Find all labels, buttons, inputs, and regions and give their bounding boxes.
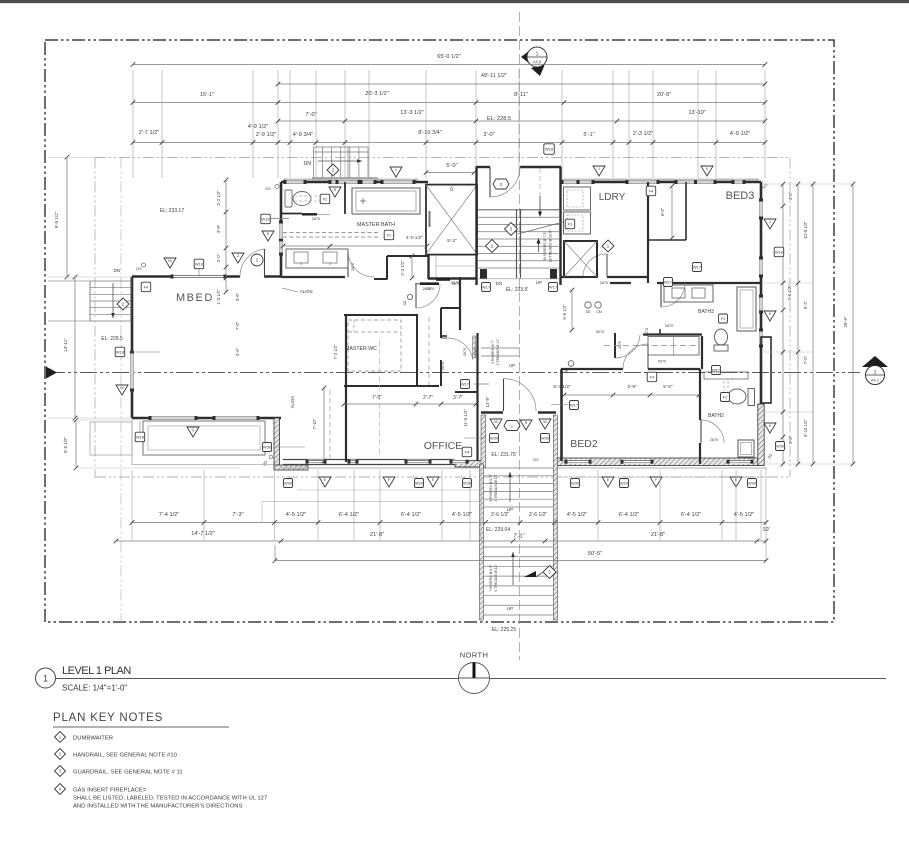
- bottom dim row3: [275, 560, 766, 562]
- svg-text:E: E: [607, 478, 610, 482]
- svg-text:6 TREADS Ø 11": 6 TREADS Ø 11": [494, 564, 498, 592]
- window N2: [330, 180, 350, 184]
- svg-text:3'-0": 3'-0": [483, 132, 494, 138]
- svg-text:F4: F4: [649, 189, 654, 194]
- svg-text:E: E: [324, 478, 327, 482]
- top toolbar strip: [0, 0, 909, 3]
- key notes underline: [53, 726, 229, 728]
- tri tag R: [329, 187, 341, 197]
- top stair arrow: [318, 160, 362, 162]
- entry W30 R: [541, 434, 550, 443]
- vertical centerline: [519, 12, 521, 660]
- window N6: [676, 180, 715, 184]
- LDRY east wall: [647, 182, 649, 283]
- master bath west wall: [280, 182, 283, 277]
- north diameter: [459, 677, 490, 679]
- svg-text:7'-5": 7'-5": [372, 395, 382, 401]
- left stair dia 2: [117, 298, 129, 310]
- svg-text:9'-9 1/2": 9'-9 1/2": [54, 211, 59, 228]
- svg-text:W18: W18: [116, 350, 125, 355]
- svg-text:29'-9": 29'-9": [843, 316, 848, 327]
- svg-text:W18: W18: [545, 147, 554, 152]
- stairwell east wall: [559, 167, 561, 285]
- north wall east: [561, 181, 761, 184]
- tri W MBED top: [164, 258, 176, 268]
- shower X: [426, 185, 477, 254]
- window N7: [733, 180, 744, 184]
- SD circle BED2: [568, 361, 574, 367]
- corridor dashed line: [428, 317, 430, 385]
- svg-text:ALIGN: ALIGN: [300, 289, 313, 294]
- svg-text:4'-0 1/2": 4'-0 1/2": [406, 235, 423, 240]
- MB tub: [352, 188, 420, 214]
- svg-text:4'-5 1/2": 4'-5 1/2": [452, 512, 472, 518]
- svg-text:7'-3": 7'-3": [232, 512, 243, 518]
- svg-text:W: W: [120, 386, 124, 390]
- note 1 diamond: [55, 732, 66, 743]
- W17 tag BED3: [693, 263, 702, 272]
- svg-text:F2: F2: [723, 395, 728, 400]
- MB toilet: [285, 190, 292, 207]
- shower box: [426, 185, 477, 255]
- north circle: [459, 663, 490, 694]
- svg-text:7'-0": 7'-0": [235, 321, 240, 330]
- svg-text:3'-6": 3'-6": [473, 347, 478, 356]
- svg-text:5'-5 1/2": 5'-5 1/2": [562, 304, 567, 320]
- entry hatch west: [481, 415, 486, 468]
- corridor east wall lower: [440, 360, 442, 386]
- flight1 up arrow: [509, 472, 511, 502]
- svg-text:2670: 2670: [312, 217, 320, 221]
- svg-text:W: W: [543, 420, 547, 424]
- svg-text:GAS INSERT FIREPLACE=: GAS INSERT FIREPLACE=: [73, 788, 147, 794]
- W18 porch tag: [135, 432, 145, 442]
- bottom dim row1: [132, 522, 766, 524]
- svg-text:6'-10 1/2": 6'-10 1/2": [803, 419, 808, 437]
- svg-text:UP: UP: [509, 363, 515, 368]
- W17 tag BATH3: [664, 278, 673, 287]
- svg-text:2670: 2670: [451, 281, 459, 285]
- svg-text:6'-4 1/2": 6'-4 1/2": [681, 512, 701, 518]
- vestibule door arc: [490, 167, 520, 197]
- stair dia 3: [505, 223, 518, 236]
- extension lines top: [132, 70, 134, 178]
- svg-text:GUARDRAIL. SEE GENERAL NOTE #: GUARDRAIL. SEE GENERAL NOTE # 11: [73, 770, 183, 776]
- office top wall: [344, 385, 439, 387]
- svg-text:R: R: [334, 188, 337, 192]
- svg-text:3'-7": 3'-7": [453, 395, 463, 401]
- svg-text:2670: 2670: [423, 287, 431, 291]
- svg-text:5'-1": 5'-1": [583, 132, 594, 138]
- svg-text:BED3: BED3: [726, 190, 755, 202]
- svg-text:SD: SD: [403, 300, 407, 305]
- left ext lines: [48, 157, 95, 159]
- note 4 diamond: [55, 784, 66, 795]
- svg-text:2'-6 1/2": 2'-6 1/2": [787, 285, 792, 301]
- svg-text:BATH3: BATH3: [698, 309, 714, 315]
- right ext lines: [763, 183, 853, 185]
- svg-text:W30: W30: [263, 445, 272, 450]
- sheet border dash-dot: [45, 40, 834, 622]
- svg-text:2'-9 1/2": 2'-9 1/2": [256, 132, 276, 138]
- svg-text:BED2: BED2: [570, 438, 598, 450]
- right dim col4: [852, 184, 854, 464]
- svg-text:13'-3 1/2": 13'-3 1/2": [400, 110, 424, 116]
- entry W30 L: [490, 434, 499, 443]
- svg-text:2670: 2670: [618, 341, 622, 349]
- svg-text:W18: W18: [195, 262, 204, 267]
- svg-text:7 RISERS Ø 6.5": 7 RISERS Ø 6.5": [489, 564, 493, 592]
- svg-text:J: J: [598, 167, 600, 171]
- office east wall: [455, 391, 477, 393]
- svg-text:DS: DS: [265, 187, 271, 191]
- stair dia 2: [486, 240, 499, 253]
- svg-text:J: J: [769, 220, 771, 224]
- window MBW: [279, 222, 283, 254]
- svg-text:LEVEL 1 PLAN: LEVEL 1 PLAN: [62, 665, 131, 677]
- svg-text:4'-5 1/2": 4'-5 1/2": [734, 512, 754, 518]
- svg-text:65'-0 1/2": 65'-0 1/2": [437, 54, 461, 60]
- left dim col1: [66, 157, 68, 277]
- stair center rail: [516, 209, 518, 278]
- svg-text:5070: 5070: [658, 360, 666, 364]
- BED2 top wall: [561, 368, 623, 370]
- svg-text:4'-8": 4'-8": [788, 435, 793, 444]
- section marker 1-A4.0: [521, 47, 547, 76]
- office center dashed: [379, 340, 381, 455]
- svg-text:DN: DN: [304, 161, 312, 167]
- svg-text:OFFICE: OFFICE: [424, 440, 463, 452]
- BED3 door: [660, 283, 662, 307]
- closet box: [648, 337, 699, 356]
- bottom dim row2: [116, 540, 766, 542]
- F2 tag BATH2: [721, 393, 730, 402]
- dim row5: [133, 142, 765, 144]
- svg-text:13'-10": 13'-10": [688, 110, 705, 116]
- svg-text:W30: W30: [748, 481, 757, 486]
- svg-text:7'-0": 7'-0": [803, 355, 808, 364]
- svg-text:W18: W18: [261, 217, 270, 222]
- svg-text:EL: 231.75': EL: 231.75': [491, 452, 516, 458]
- niche wall n: [387, 255, 428, 257]
- dim 5-0 entry: [426, 172, 474, 174]
- svg-text:6'-0": 6'-0": [660, 207, 665, 216]
- vestibule hex 3: [493, 179, 509, 189]
- tri J right: [764, 219, 776, 229]
- svg-text:W17: W17: [549, 285, 558, 290]
- W17 stair R: [549, 283, 558, 292]
- svg-text:1: 1: [874, 370, 877, 376]
- svg-text:5'-3 1/2": 5'-3 1/2": [553, 384, 571, 390]
- svg-text:1: 1: [43, 674, 48, 684]
- svg-text:21'-8": 21'-8": [370, 532, 384, 538]
- tri E MB: [262, 231, 274, 241]
- BATH2 vanity: [704, 372, 748, 379]
- svg-text:F2: F2: [721, 316, 726, 321]
- top stair treads: [313, 147, 315, 178]
- wall below shower h: [428, 277, 476, 279]
- svg-text:5070: 5070: [441, 362, 445, 370]
- svg-text:3'-6 1/2": 3'-6 1/2": [491, 512, 510, 518]
- svg-text:DUMBWAITER: DUMBWAITER: [73, 736, 113, 742]
- svg-text:EL: 233.5': EL: 233.5': [506, 287, 528, 293]
- stair up arrow: [538, 240, 540, 252]
- svg-text:7'-1": 7'-1": [513, 534, 524, 540]
- svg-text:2670: 2670: [710, 438, 718, 442]
- marker row tris: [319, 477, 331, 487]
- south wall west hatch B: [455, 461, 484, 468]
- MBED door arc: [240, 249, 265, 277]
- svg-text:3'-9": 3'-9": [627, 384, 637, 390]
- wall hatched SE of MBED: [274, 418, 280, 467]
- svg-text:W17: W17: [693, 265, 702, 270]
- tri Z hall: [232, 253, 244, 263]
- tri H right2: [764, 423, 776, 433]
- svg-text:F4: F4: [465, 450, 470, 455]
- svg-text:W17: W17: [461, 382, 470, 387]
- svg-text:7'-0": 7'-0": [305, 112, 316, 118]
- stair top edge: [478, 209, 559, 211]
- section arrow left: [46, 367, 57, 379]
- window E2: [759, 258, 763, 276]
- flight2 up arrow: [512, 552, 514, 585]
- LDRY door: [606, 254, 608, 277]
- hall west door wall: [614, 333, 616, 358]
- svg-text:SHALL BE LISTED, LABELED, TEST: SHALL BE LISTED, LABELED, TESTED IN ACCO…: [73, 796, 267, 802]
- svg-text:K: K: [706, 167, 709, 171]
- shower glass bar: [429, 211, 431, 227]
- circ 2 MBED door: [251, 254, 263, 266]
- top stair landing bar: [312, 177, 378, 182]
- svg-text:UP: UP: [536, 280, 542, 285]
- hall bottom wall: [481, 411, 503, 414]
- svg-text:2670: 2670: [351, 263, 355, 271]
- F3 tag: [565, 219, 575, 229]
- entry porch tri W1: [490, 419, 502, 429]
- svg-text:MBED: MBED: [176, 292, 214, 304]
- svg-text:2'-3 1/2": 2'-3 1/2": [633, 131, 653, 137]
- master bath toilet wall: [281, 213, 302, 215]
- north wall west: [281, 181, 428, 184]
- roof line right: [789, 158, 791, 478]
- svg-text:7'-10": 7'-10": [312, 418, 317, 429]
- svg-text:2'-0": 2'-0": [216, 253, 221, 262]
- title circle 1: [36, 668, 56, 688]
- BED2 door: [647, 344, 649, 369]
- svg-text:SD: SD: [565, 368, 569, 373]
- left col dims x226: [225, 180, 227, 292]
- svg-text:8'-11": 8'-11": [514, 92, 528, 98]
- MB toilet dashes: [294, 195, 322, 197]
- svg-text:3'-6 1/2": 3'-6 1/2": [529, 512, 548, 518]
- vestibule door leaf: [489, 167, 491, 197]
- niche wall w: [386, 256, 388, 280]
- svg-text:13'-9": 13'-9": [485, 396, 490, 407]
- hall west door arc: [614, 333, 616, 358]
- svg-text:5 RISERS Ø 6.5": 5 RISERS Ø 6.5": [489, 474, 493, 502]
- W30 corner tag: [263, 443, 272, 452]
- BATH3 tub: [737, 287, 756, 331]
- svg-text:8'-10 3/4": 8'-10 3/4": [418, 130, 442, 136]
- window E1: [759, 200, 763, 218]
- svg-text:F4: F4: [650, 375, 655, 380]
- svg-text:6'-4 1/2": 6'-4 1/2": [339, 512, 359, 518]
- stair flight2 treads: [484, 546, 553, 548]
- W30 tag office: [463, 479, 472, 488]
- svg-text:4 TREADS Ø 11": 4 TREADS Ø 11": [494, 474, 498, 502]
- svg-text:EL: 229.04: EL: 229.04: [486, 527, 510, 533]
- svg-text:5'-0": 5'-0": [446, 163, 457, 169]
- svg-text:3'-6": 3'-6": [235, 347, 240, 356]
- svg-text:19 RISERS Ø 7.5": 19 RISERS Ø 7.5": [543, 231, 547, 261]
- entry door arc: [504, 379, 537, 411]
- svg-text:HANDRAIL, SEE GENERAL NOTE #10: HANDRAIL, SEE GENERAL NOTE #10: [73, 753, 178, 759]
- hall closet wall: [643, 333, 702, 335]
- svg-text:A4.1: A4.1: [871, 378, 880, 383]
- window N3: [337, 180, 359, 184]
- W17 tag BED2 W: [570, 401, 579, 410]
- svg-text:MASTER WC: MASTER WC: [345, 346, 377, 352]
- left porch rect: [143, 421, 265, 455]
- window S3: [451, 460, 467, 464]
- stair newel L: [480, 269, 487, 279]
- svg-text:4'-9 3/4": 4'-9 3/4": [293, 132, 313, 138]
- corridor door arc: [447, 338, 473, 360]
- svg-text:5'-0": 5'-0": [663, 384, 673, 390]
- MBED north wall2: [264, 275, 281, 278]
- W17 hall tag: [461, 380, 470, 389]
- dim row 65ft: [133, 64, 765, 66]
- right dim col3: [812, 184, 814, 464]
- tri tag K top: [701, 166, 713, 176]
- svg-text:DS: DS: [533, 458, 539, 462]
- flight2 dia 3: [543, 566, 556, 579]
- svg-text:1: 1: [536, 52, 539, 58]
- entry porch tri R: [520, 420, 532, 430]
- right bump-out: [761, 337, 771, 403]
- right dim col1: [782, 184, 784, 464]
- svg-text:MASTER BATH: MASTER BATH: [357, 222, 395, 228]
- dim row MB: [283, 245, 427, 247]
- dumbwaiter dia 1: [602, 240, 614, 252]
- svg-text:7'-3 1/2": 7'-3 1/2": [333, 344, 338, 360]
- dumbwaiter X: [564, 241, 597, 277]
- BED3 bottom wall: [610, 282, 631, 284]
- svg-text:EL: 225.25: EL: 225.25: [492, 627, 516, 633]
- svg-text:20'-9": 20'-9": [657, 92, 671, 98]
- stairR wall: [554, 415, 556, 620]
- svg-text:SCALE: 1/4"=1'-0": SCALE: 1/4"=1'-0": [62, 684, 127, 693]
- svg-text:EL: 229.5: EL: 229.5: [101, 336, 123, 342]
- svg-text:3'-9": 3'-9": [216, 224, 221, 233]
- left dim col3: [75, 420, 77, 468]
- svg-text:W30: W30: [284, 481, 293, 486]
- LDRY west wall: [556, 182, 558, 285]
- W30 right: [776, 442, 785, 451]
- SD circle hall: [407, 294, 412, 299]
- BATH2 toilet: [728, 389, 746, 404]
- top stair diamond 2: [327, 164, 339, 176]
- svg-text:14'-7 1/2": 14'-7 1/2": [191, 531, 215, 537]
- dim row3: [133, 102, 765, 104]
- BED2 top wall2: [648, 368, 700, 370]
- tri tag J top: [593, 166, 605, 176]
- F2 tag MB toilet: [320, 194, 330, 204]
- svg-text:A4.0: A4.0: [533, 60, 542, 65]
- F4 tag BED3: [646, 186, 656, 196]
- left stair walls: [89, 281, 91, 321]
- svg-text:L: L: [395, 168, 397, 172]
- shower recess lines: [435, 255, 437, 277]
- toilet room door leaf: [302, 213, 317, 215]
- svg-text:W29: W29: [620, 481, 629, 486]
- stair landing edge: [477, 278, 560, 280]
- F4 tag office: [462, 447, 472, 457]
- toilet nook wall v: [344, 182, 346, 214]
- svg-text:5'-3": 5'-3": [447, 238, 457, 244]
- closet dashed line: [604, 345, 700, 347]
- master WC top wall: [344, 314, 418, 316]
- svg-text:20'-3 1/2": 20'-3 1/2": [365, 91, 389, 97]
- left dim col2: [74, 277, 76, 418]
- window S2: [349, 460, 357, 464]
- svg-text:1'-3 1/2": 1'-3 1/2": [216, 289, 221, 305]
- hall door top leaf: [415, 284, 417, 308]
- LDRY bottom wall2: [607, 276, 648, 278]
- F2 tag BATH3: [719, 314, 728, 323]
- washer dryer: [564, 187, 591, 210]
- hall jog wall: [441, 307, 460, 309]
- svg-text:7'-4 1/2": 7'-4 1/2": [159, 512, 179, 518]
- north wall sill band: [283, 179, 418, 181]
- window E4: [759, 330, 763, 346]
- svg-text:2'-7 1/2": 2'-7 1/2": [139, 130, 159, 136]
- window N4: [562, 180, 593, 184]
- north needle: [473, 663, 476, 679]
- svg-text:AND INSTALLED WITH THE MANUFAC: AND INSTALLED WITH THE MANUFACTURER'S DI…: [73, 804, 243, 810]
- south wall east (hatched): [556, 458, 761, 466]
- dim row4: [278, 120, 765, 122]
- svg-text:3 RISERS Ø 7": 3 RISERS Ø 7": [491, 339, 495, 364]
- BATH3 toilet: [715, 329, 728, 345]
- BATH3 vanity: [664, 285, 713, 302]
- section line A4.1: [48, 372, 860, 374]
- svg-text:49'-11 1/2": 49'-11 1/2": [481, 73, 507, 79]
- east wall: [760, 182, 763, 464]
- svg-text:4'-5 1/2": 4'-5 1/2": [286, 512, 306, 518]
- svg-text:3'-5": 3'-5": [788, 191, 793, 200]
- laundry chute circles: [585, 302, 591, 308]
- note 2 diamond: [55, 749, 66, 760]
- WC dashed shelves: [348, 320, 401, 371]
- svg-text:Q: Q: [192, 428, 195, 432]
- svg-text:R: R: [525, 421, 528, 425]
- svg-text:2670: 2670: [600, 281, 608, 285]
- window S5: [622, 460, 652, 464]
- LDRY bottom wall: [561, 276, 583, 278]
- dim row 49ft: [278, 83, 765, 85]
- svg-text:CM: CM: [596, 310, 602, 314]
- svg-text:W30: W30: [463, 481, 472, 486]
- F4 tag BED2: [647, 372, 657, 382]
- master WC left wall: [345, 315, 347, 462]
- BATH2 door arc: [700, 420, 702, 443]
- entry porch tri W2: [539, 419, 551, 429]
- svg-text:E: E: [267, 232, 270, 236]
- stair break diagonal: [518, 222, 563, 234]
- title underline: [56, 678, 887, 680]
- window N1: [285, 180, 305, 184]
